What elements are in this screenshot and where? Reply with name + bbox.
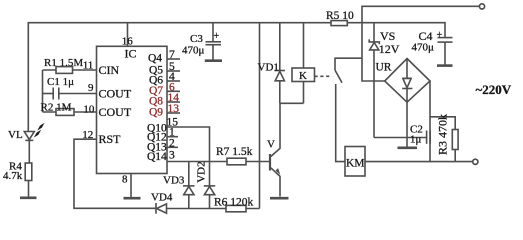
svg-text:3: 3 [169, 150, 175, 162]
svg-text:CIN: CIN [99, 63, 120, 77]
svg-text:7: 7 [169, 49, 175, 61]
svg-text:1μ: 1μ [410, 134, 422, 146]
svg-text:COUT: COUT [99, 105, 132, 119]
svg-text:Q4: Q4 [148, 53, 162, 65]
svg-text:12: 12 [82, 129, 93, 141]
svg-text:2: 2 [169, 137, 175, 149]
svg-text:KM: KM [346, 158, 365, 170]
svg-text:R2 1M: R2 1M [41, 102, 72, 114]
svg-text:VD4: VD4 [151, 192, 173, 204]
svg-text:11: 11 [83, 60, 94, 72]
svg-text:470μ: 470μ [182, 45, 205, 57]
svg-text:COUT: COUT [99, 87, 132, 101]
svg-text:9: 9 [88, 82, 94, 94]
svg-text:C1 1μ: C1 1μ [47, 76, 74, 88]
svg-text:10: 10 [83, 104, 95, 116]
svg-text:IC: IC [125, 47, 137, 61]
svg-text:R7 1.5k: R7 1.5k [216, 146, 253, 158]
svg-text:Q9: Q9 [149, 107, 163, 119]
svg-text:VL: VL [8, 129, 23, 141]
svg-text:13: 13 [168, 103, 180, 115]
svg-text:V: V [267, 139, 275, 151]
svg-text:12V: 12V [379, 42, 400, 56]
svg-text:RST: RST [99, 132, 122, 146]
svg-text:8: 8 [122, 174, 128, 186]
svg-text:R6 120k: R6 120k [214, 196, 254, 208]
svg-text:VD3: VD3 [163, 175, 185, 187]
svg-text:+: + [214, 31, 220, 42]
svg-text:4.7k: 4.7k [3, 170, 23, 182]
svg-text:470μ: 470μ [412, 42, 435, 54]
svg-text:C3: C3 [190, 33, 203, 45]
svg-text:UR: UR [376, 62, 392, 74]
svg-text:R5 10: R5 10 [326, 10, 354, 22]
svg-text:R3 470k: R3 470k [436, 114, 450, 155]
svg-text:K: K [299, 70, 307, 82]
svg-text:~220V: ~220V [476, 82, 512, 97]
svg-text:Q14: Q14 [147, 151, 167, 163]
svg-text:VD1: VD1 [258, 62, 279, 74]
svg-text:VD2: VD2 [196, 161, 208, 182]
svg-text:R1 1.5M: R1 1.5M [44, 57, 83, 69]
svg-text:+: + [437, 30, 443, 41]
